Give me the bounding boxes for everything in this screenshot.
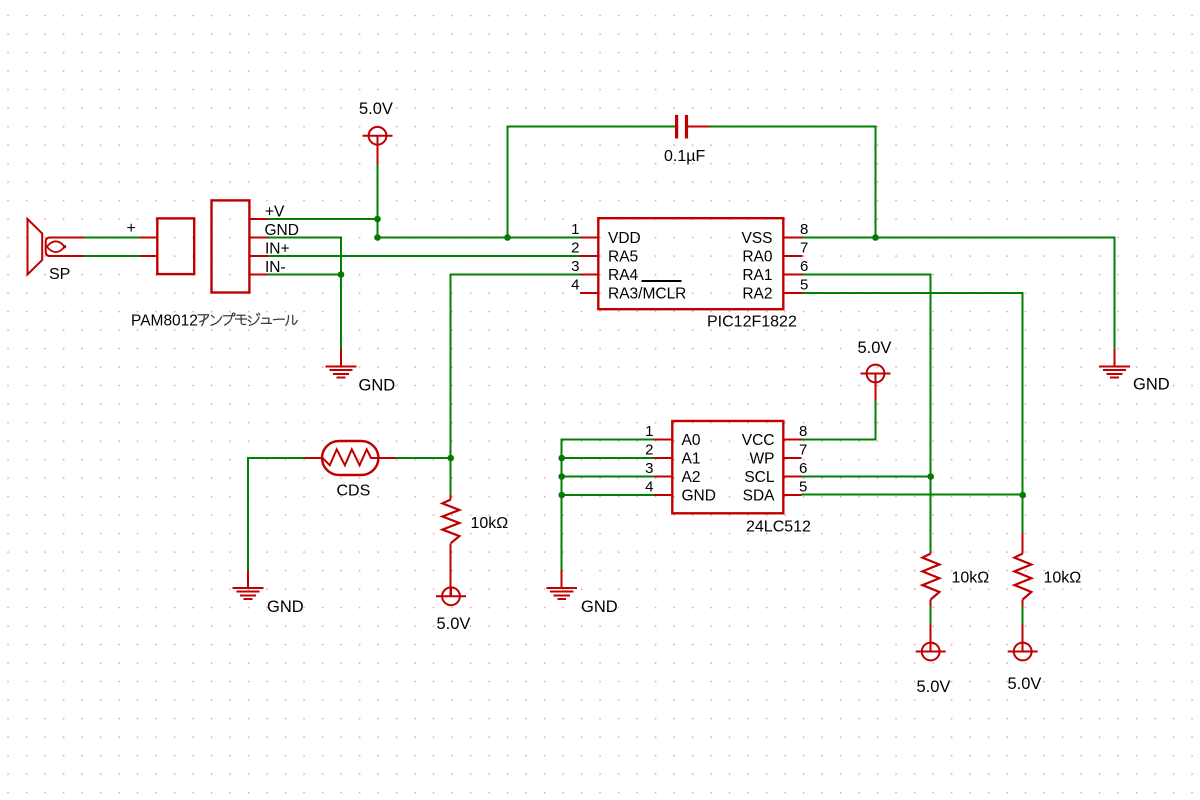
- wire +V to 5V node: [268, 218, 378, 220]
- svg-text:6: 6: [800, 258, 808, 275]
- capacitor C1 right lead: [688, 126, 709, 128]
- 24LC512 pin stub 8 (right): [783, 439, 801, 441]
- MCLR overline: [642, 280, 682, 282]
- PIC pin stub 7 (right): [784, 255, 802, 257]
- wire SDA horizontal: [801, 494, 1022, 496]
- svg-text:3: 3: [645, 460, 653, 477]
- ground G3 (24LC512): [561, 571, 563, 589]
- svg-text:CDS: CDS: [337, 483, 371, 500]
- svg-text:RA4: RA4: [608, 267, 639, 284]
- wire A1 to bus: [562, 457, 654, 459]
- supply P3 5.0V (under R3): [442, 587, 460, 605]
- CDS zigzag: [323, 449, 379, 465]
- wire capacitor right to VSS node: [709, 127, 875, 238]
- junction +V/5V: [374, 216, 381, 223]
- svg-text:SCL: SCL: [744, 469, 775, 486]
- supply P4 5.0V (under R1): [922, 643, 940, 661]
- wire speaker top to connector: [84, 237, 140, 239]
- svg-text:IN-: IN-: [265, 259, 286, 276]
- junction A1 bus: [558, 455, 565, 462]
- svg-text:VCC: VCC: [742, 432, 775, 449]
- label katakana anpu-mojuuru: [198, 313, 297, 326]
- junction SDA/RA2/R2: [1019, 492, 1026, 499]
- ground G2 (CDS): [247, 571, 249, 589]
- resistor R3 bottom lead: [450, 543, 452, 596]
- resistor R3 10k zigzag: [442, 500, 459, 544]
- wire VDD horizontal to PIC pin1: [378, 237, 581, 239]
- PIC pin stub 6 (right): [784, 274, 802, 276]
- CDS left lead: [305, 457, 323, 459]
- PIC pin stub 1 (left): [580, 237, 598, 239]
- wire PIC RA1 to SCL and R1: [802, 275, 930, 553]
- wire R2 bottom to supply P5: [1022, 606, 1024, 625]
- svg-text:10kΩ: 10kΩ: [952, 570, 990, 587]
- capacitor C1 left plate: [675, 115, 678, 139]
- PIC pin stub 3 (left): [580, 274, 598, 276]
- svg-text:5: 5: [800, 277, 808, 294]
- junction VSS-cap: [872, 234, 879, 241]
- svg-text:GND: GND: [682, 488, 716, 505]
- PAM8012 pin stub IN+: [249, 255, 267, 257]
- svg-text:5.0V: 5.0V: [359, 100, 393, 118]
- svg-text:VSS: VSS: [741, 230, 772, 247]
- svg-text:10kΩ: 10kΩ: [471, 515, 509, 532]
- junction SCL/RA1/R1: [927, 473, 934, 480]
- svg-text:VDD: VDD: [608, 230, 641, 247]
- wire VCC to 5V supply P2: [801, 400, 875, 440]
- resistor R1 bottom lead: [930, 600, 932, 607]
- resistor R2 bottom lead: [1022, 600, 1024, 607]
- wire R1 bottom to supply P4: [930, 606, 932, 625]
- wire CDS right to node: [396, 457, 451, 459]
- PIC pin stub 2 (left): [580, 255, 598, 257]
- svg-text:8: 8: [799, 423, 807, 440]
- 24LC512 pin stub 5 (right): [783, 494, 801, 496]
- svg-text:1: 1: [645, 423, 653, 440]
- resistor R1 10k zigzag: [922, 554, 939, 600]
- connector box J1: [157, 218, 194, 274]
- junction VDD node: [374, 234, 381, 241]
- svg-text:SP: SP: [49, 266, 70, 283]
- svg-text:GND: GND: [1133, 376, 1170, 394]
- svg-text:RA2: RA2: [742, 286, 772, 303]
- svg-text:WP: WP: [750, 451, 775, 468]
- junction CDS/RA4/R3: [447, 455, 454, 462]
- junction VDD-cap: [504, 234, 511, 241]
- svg-text:5: 5: [799, 479, 807, 496]
- svg-text:4: 4: [571, 277, 579, 294]
- svg-text:5.0V: 5.0V: [1008, 675, 1042, 693]
- svg-text:IN+: IN+: [265, 241, 290, 258]
- PAM8012 pin stub +V: [249, 218, 267, 220]
- CDS right lead: [378, 457, 395, 459]
- svg-text:2: 2: [645, 442, 653, 459]
- supply P5 5.0V (under R2): [1014, 643, 1032, 661]
- wire PIC RA2 to SDA and R2: [802, 293, 1022, 533]
- wire CDS left to GND: [248, 458, 305, 571]
- svg-text:RA5: RA5: [608, 249, 638, 266]
- svg-text:RA1: RA1: [742, 267, 772, 284]
- 24LC512 pin stub 6 (right): [783, 476, 801, 478]
- IC PIC12F1822 box U2: [598, 218, 783, 309]
- svg-text:PAM8012: PAM8012: [131, 313, 198, 330]
- 24LC512 pin stub 4 (left): [654, 494, 672, 496]
- svg-text:A2: A2: [682, 469, 701, 486]
- svg-text:24LC512: 24LC512: [746, 519, 811, 536]
- svg-text:+V: +V: [265, 204, 285, 221]
- svg-text:7: 7: [799, 442, 807, 459]
- 24LC512 pin stub 2 (left): [654, 457, 672, 459]
- IC 24LC512 box U3: [672, 421, 783, 513]
- connector pin stub bottom: [140, 255, 157, 257]
- 24LC512 pin stub 3 (left): [654, 476, 672, 478]
- resistor R2 top lead: [1022, 533, 1024, 554]
- wire 24LC512 GND pin to bus: [562, 494, 654, 496]
- PAM8012 pin stub GND: [249, 237, 267, 239]
- speaker SP coil lens: [47, 241, 65, 252]
- wire A0 to left bus: [562, 440, 654, 571]
- capacitor C1 right plate: [685, 115, 688, 139]
- wire PAM GND pin down: [268, 238, 341, 350]
- svg-text:RA0: RA0: [742, 249, 773, 266]
- resistor R3 top lead: [450, 495, 452, 500]
- resistor R1 top lead: [930, 552, 932, 554]
- wire IN+ to PIC RA5: [268, 255, 580, 257]
- 24LC512 pin stub 1 (left): [654, 439, 672, 441]
- PAM8012 module box U1: [212, 200, 250, 292]
- svg-text:A1: A1: [682, 451, 701, 468]
- svg-text:RA3/MCLR: RA3/MCLR: [608, 286, 686, 303]
- PIC pin stub 8 (right): [784, 237, 802, 239]
- svg-text:6: 6: [799, 460, 807, 477]
- CDS body (stadium): [322, 441, 378, 475]
- svg-text:5.0V: 5.0V: [858, 339, 892, 357]
- wire IN- to GND junction: [268, 274, 341, 276]
- supply P1 5.0V (top left): [369, 127, 387, 145]
- svg-text:7: 7: [800, 240, 808, 257]
- ground G1 (PAM module): [340, 349, 342, 367]
- svg-text:0.1µF: 0.1µF: [664, 148, 705, 165]
- svg-text:4: 4: [645, 479, 653, 496]
- junction A2 bus: [558, 473, 565, 480]
- speaker SP cone: [28, 219, 43, 275]
- svg-text:GND: GND: [581, 598, 618, 616]
- 24LC512 pin stub 7 (right): [783, 457, 801, 459]
- wire speaker bottom to connector: [84, 255, 140, 257]
- svg-text:5.0V: 5.0V: [917, 678, 951, 696]
- junction IN-/GND: [338, 271, 345, 278]
- svg-text:SDA: SDA: [743, 488, 776, 505]
- resistor R2 10k zigzag: [1014, 554, 1031, 600]
- svg-text:1: 1: [571, 221, 579, 238]
- svg-text:PIC12F1822: PIC12F1822: [707, 314, 797, 331]
- supply P2 5.0V (above 24LC512): [867, 365, 885, 383]
- svg-text:10kΩ: 10kΩ: [1044, 570, 1082, 587]
- svg-text:5.0V: 5.0V: [437, 615, 471, 633]
- svg-text:+: +: [127, 220, 136, 237]
- svg-text:8: 8: [800, 221, 808, 238]
- speaker SP coil loop: [46, 238, 84, 257]
- wire 5V vertical from supply P1: [377, 164, 379, 238]
- PAM8012 pin stub IN-: [249, 274, 267, 276]
- PIC pin stub 5 (right): [784, 292, 802, 294]
- connector pin stub top: [140, 237, 157, 239]
- junction GND bus: [558, 492, 565, 499]
- svg-text:GND: GND: [267, 598, 304, 616]
- svg-text:3: 3: [571, 258, 579, 275]
- ground G4 (VSS right): [1114, 349, 1116, 367]
- svg-text:GND: GND: [265, 222, 299, 239]
- PIC pin stub 4 (left): [580, 292, 598, 294]
- wire VSS to right GND: [802, 238, 1114, 350]
- svg-text:2: 2: [571, 240, 579, 257]
- wire A2 to bus: [562, 476, 654, 478]
- wire PIC RA4 to CDS node: [451, 275, 580, 496]
- wire SCL horizontal: [801, 476, 930, 478]
- svg-text:A0: A0: [682, 432, 701, 449]
- svg-text:GND: GND: [359, 377, 396, 395]
- wire VDD up to capacitor left: [508, 127, 676, 238]
